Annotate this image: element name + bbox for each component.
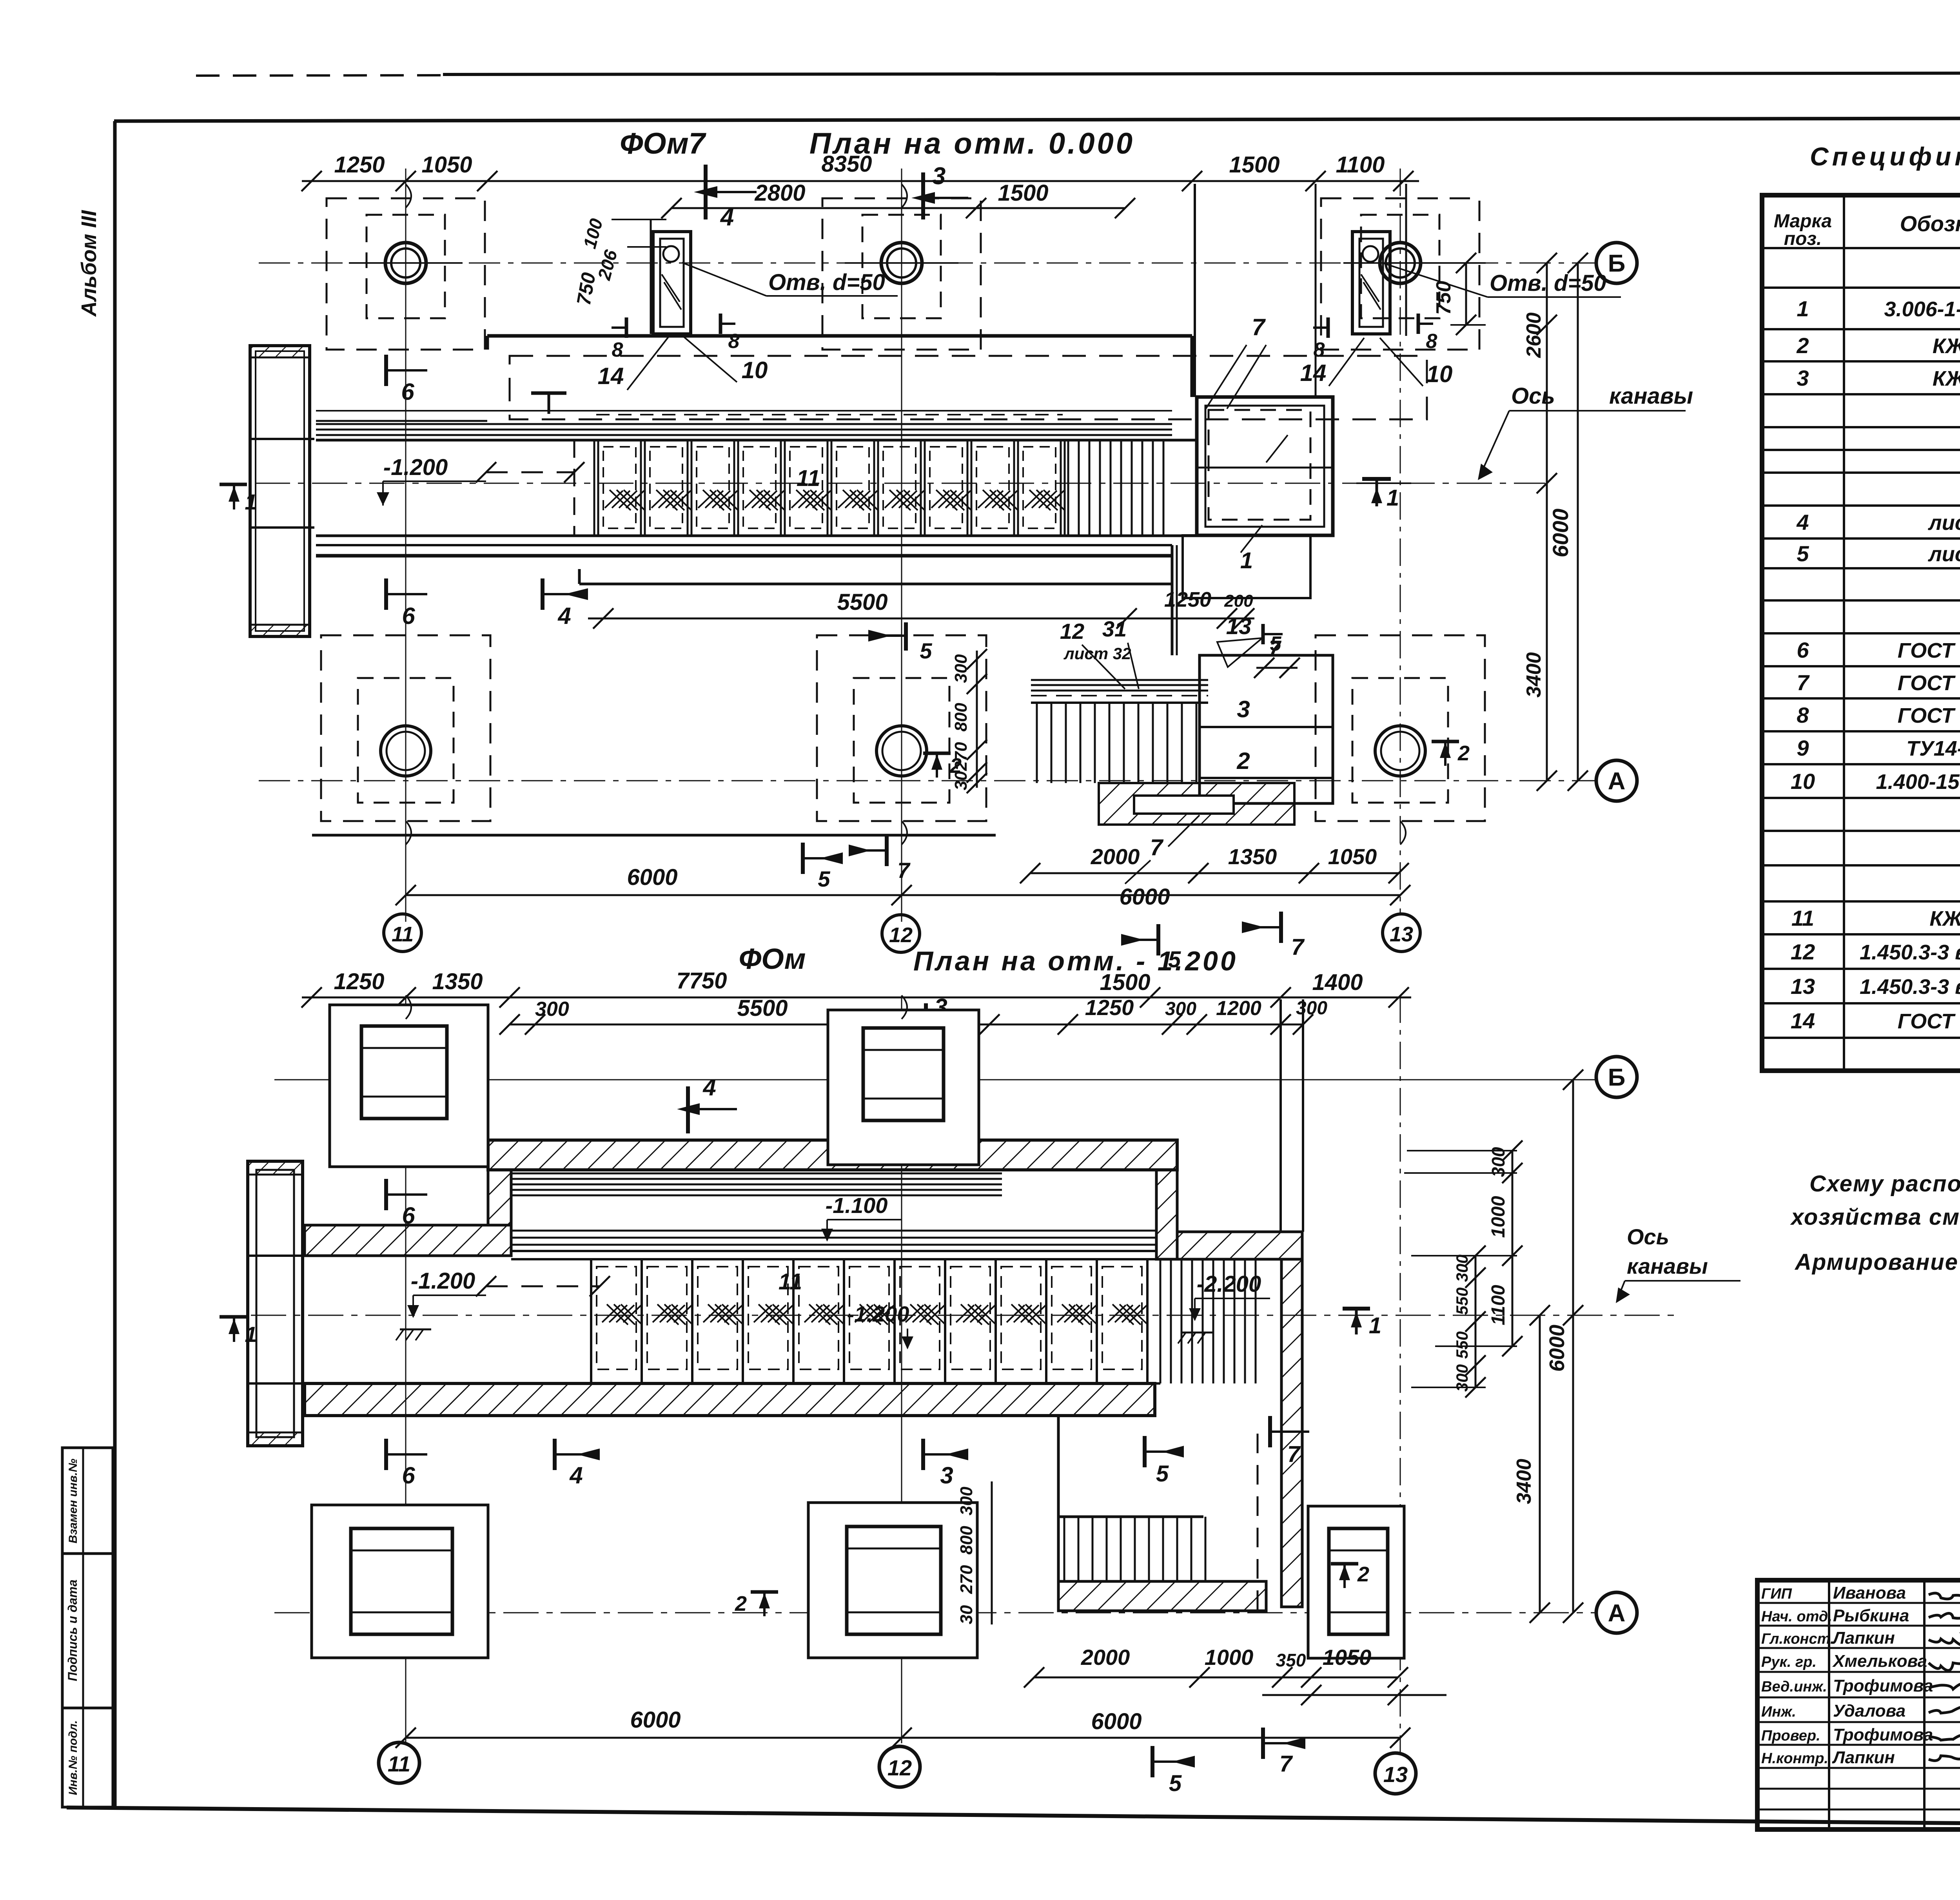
grid line 12 (vertical axis) xyxy=(901,169,902,922)
svg-text:5500: 5500 xyxy=(737,995,788,1021)
svg-text:8: 8 xyxy=(728,330,740,353)
label 11 on covers xyxy=(797,466,820,491)
svg-text:Гл.конст.: Гл.конст. xyxy=(1761,1631,1834,1647)
svg-text:5: 5 xyxy=(920,638,932,663)
section mark 5 (bottom plan mid) xyxy=(1145,1436,1184,1487)
svg-text:13: 13 xyxy=(1383,1762,1408,1787)
pit top wall hatched band xyxy=(488,1140,1177,1170)
svg-text:31: 31 xyxy=(1102,616,1127,641)
note text line 2 xyxy=(1790,1204,1960,1230)
svg-text:1500: 1500 xyxy=(1100,970,1150,995)
svg-text:А: А xyxy=(1608,1600,1626,1627)
svg-text:8350: 8350 xyxy=(821,151,872,177)
section mark 5 (bottom) xyxy=(1152,1746,1195,1796)
svg-text:2800: 2800 xyxy=(754,180,805,206)
svg-text:3.006-1-2/82 в 1-2: 3.006-1-2/82 в 1-2 xyxy=(1884,297,1960,321)
dashed line near right wall xyxy=(1257,1434,1259,1610)
witness lines right (bottom plan) xyxy=(1404,1151,1517,1387)
svg-text:Н.контр.: Н.контр. xyxy=(1761,1750,1828,1767)
svg-text:Армирование ФОм7 смотреть: Армирование ФОм7 смотреть лист 31,32 xyxy=(1794,1249,1960,1275)
section marks 8-8 left column xyxy=(612,314,740,361)
grid line 13 (vertical axis, dash-dot) xyxy=(1400,169,1401,913)
pit upper wall outer edge xyxy=(487,336,1192,397)
axis circle А (bottom plan) xyxy=(1596,1592,1637,1633)
svg-text:ФОм: ФОм xyxy=(739,943,806,975)
column footing grid 11 (bottom plan, upper) xyxy=(330,1005,488,1167)
svg-text:1.450.3-3 в. 2: 1.450.3-3 в. 2 xyxy=(1860,975,1960,999)
section mark 5 (inner bottom) xyxy=(803,843,843,891)
ladder rungs right of covers (top plan) xyxy=(1068,440,1163,536)
svg-text:11: 11 xyxy=(392,923,414,946)
building wall line below pit xyxy=(579,569,1172,584)
ladder rungs (bottom plan band right) xyxy=(1160,1259,1256,1383)
svg-text:7: 7 xyxy=(1252,314,1266,340)
svg-text:300: 300 xyxy=(1453,1364,1471,1392)
title block left grid xyxy=(1757,1580,1960,1829)
chamber mid horizontal line xyxy=(1197,467,1333,469)
svg-text:Альбом III: Альбом III xyxy=(77,210,101,317)
svg-text:А: А xyxy=(1608,768,1626,795)
wavy break pads (bottom plan upper) xyxy=(406,995,907,1019)
note text line 3 xyxy=(1794,1249,1960,1275)
svg-text:6: 6 xyxy=(1797,638,1809,662)
bottom plan title ФОм xyxy=(739,943,806,975)
svg-text:7: 7 xyxy=(1287,1441,1301,1467)
dim 2000/1350/1050 xyxy=(1020,844,1409,883)
svg-text:8: 8 xyxy=(1797,703,1809,727)
svg-text:9: 9 xyxy=(1797,736,1809,760)
svg-text:Б: Б xyxy=(1608,1064,1626,1091)
hatched platform below (pos.7) xyxy=(1099,783,1294,825)
frame bottom edge xyxy=(67,1808,1960,1828)
T2 mark near grid12 pad xyxy=(923,753,962,778)
svg-text:3400: 3400 xyxy=(1523,652,1545,698)
svg-text:2: 2 xyxy=(1236,748,1250,774)
svg-text:Лапкин: Лапкин xyxy=(1832,1628,1895,1648)
wavy break through pad 12 xyxy=(902,184,907,208)
foundation pad at grid 11 / axis Б xyxy=(327,198,485,350)
svg-text:1050: 1050 xyxy=(1328,844,1377,869)
svg-text:300: 300 xyxy=(535,998,569,1021)
svg-text:Спецификация к схеме рас: Спецификация к схеме расположения xyxy=(1810,142,1960,171)
left margin box: Подпись и дата xyxy=(62,1554,113,1708)
svg-text:11: 11 xyxy=(797,466,820,491)
top plan title План на отм. 0.000 xyxy=(809,127,1135,160)
svg-text:550: 550 xyxy=(1453,1331,1471,1359)
svg-text:10: 10 xyxy=(742,357,768,383)
note text line 1 xyxy=(1809,1171,1960,1197)
svg-text:КЖИ-57: КЖИ-57 xyxy=(1933,334,1960,358)
svg-text:Обозначение: Обозначение xyxy=(1900,211,1960,236)
svg-text:1500: 1500 xyxy=(1229,152,1279,178)
label 14 with leader (right) xyxy=(1300,338,1364,386)
svg-text:1: 1 xyxy=(1387,485,1399,511)
svg-text:Инж.: Инж. xyxy=(1761,1704,1796,1720)
svg-text:Хмелькова: Хмелькова xyxy=(1832,1652,1927,1671)
section arrow 3 (top) xyxy=(911,163,968,219)
Ось канавы label (top plan) xyxy=(1478,383,1693,480)
section arrow 4 (top) xyxy=(694,165,757,231)
grid dim 6000 6000 xyxy=(396,865,1410,910)
grid line 11 (bottom plan) xyxy=(405,995,407,1743)
level mark -1.200 in pit xyxy=(377,455,486,506)
column footing grid 12 (bottom plan, upper) xyxy=(828,1010,979,1165)
section mark T1 right xyxy=(1356,479,1411,511)
svg-text:2: 2 xyxy=(735,1592,747,1615)
rotated dims 30/270/800/300 (bottom plan) xyxy=(957,1481,992,1624)
dim 2000/1000/350/1050 xyxy=(1024,1645,1408,1688)
vertical dim 6000 (Б-А) xyxy=(1548,253,1588,791)
svg-text:300: 300 xyxy=(1165,999,1196,1019)
section mark 3 lower (bottom plan) xyxy=(923,1439,968,1488)
column footing grid 11 (bottom plan, lower) xyxy=(312,1505,488,1658)
spec table header text xyxy=(1774,207,1960,249)
svg-text:7: 7 xyxy=(897,858,911,883)
svg-text:канавы: канавы xyxy=(1609,383,1693,409)
lower chamber box with cells 3 and 2 xyxy=(1200,655,1333,803)
svg-text:КЖИ- 91: КЖИ- 91 xyxy=(1929,907,1960,930)
section mark 1 left edge (top plan) xyxy=(220,484,257,514)
svg-text:7: 7 xyxy=(1291,934,1305,960)
pit cells band outline xyxy=(316,440,1198,536)
grid line 11 (vertical axis) xyxy=(405,169,407,922)
svg-text:Рук. гр.: Рук. гр. xyxy=(1761,1654,1817,1670)
pit bottom wall lines xyxy=(316,545,1177,655)
svg-text:6: 6 xyxy=(402,1202,415,1229)
svg-text:6000: 6000 xyxy=(627,865,677,890)
table row 4 xyxy=(1796,510,1960,535)
spec table title line 1 xyxy=(1810,142,1960,171)
pit axis centerline xyxy=(255,483,1545,484)
section mark 6 lower (bottom plan) xyxy=(386,1439,427,1488)
svg-text:6000: 6000 xyxy=(630,1707,681,1733)
svg-text:1: 1 xyxy=(1369,1313,1381,1338)
wavy breaks in bottom pads xyxy=(406,821,1406,845)
short dim line below xyxy=(1262,1685,1446,1705)
title block outer xyxy=(1757,1580,1960,1829)
svg-text:200: 200 xyxy=(1224,591,1253,611)
section mark 7 (inner bottom) xyxy=(849,835,911,883)
pit bottom wall hatched band xyxy=(305,1383,1155,1416)
svg-text:Вед.инж.: Вед.инж. xyxy=(1761,1679,1827,1695)
outer vertical dim 300/1000/1100 xyxy=(1488,1140,1523,1356)
svg-text:Трофимова: Трофимова xyxy=(1833,1725,1933,1744)
svg-text:6000: 6000 xyxy=(1545,1325,1569,1372)
section mark 5 (inner bottom) xyxy=(803,843,843,891)
section mark 7 (bottom plan mid) xyxy=(1270,1416,1309,1467)
canal axis centerline (bottom plan) xyxy=(251,1315,1682,1316)
svg-text:ГИП: ГИП xyxy=(1761,1586,1792,1602)
T2 mark near grid12 (bottom plan) xyxy=(735,1592,778,1616)
section mark T1 (bottom plan) xyxy=(1343,1309,1381,1338)
svg-text:300: 300 xyxy=(1453,1255,1471,1282)
table row 10 xyxy=(1791,769,1960,794)
svg-text:5: 5 xyxy=(1797,541,1809,566)
axis circle Б (top plan) xyxy=(1596,243,1637,283)
svg-text:1.400-15 в.1 550-06: 1.400-15 в.1 550-06 xyxy=(1876,770,1960,794)
svg-text:2600: 2600 xyxy=(1523,312,1545,358)
axis А line (bottom plan) xyxy=(274,1612,1595,1614)
T symbol in plate zone xyxy=(531,393,566,414)
svg-text:Удалова: Удалова xyxy=(1833,1701,1906,1721)
svg-text:1: 1 xyxy=(245,490,257,514)
svg-text:3400: 3400 xyxy=(1513,1459,1535,1504)
inner vertical dim 300/550/550/300 xyxy=(1453,1246,1486,1398)
lower stair rungs xyxy=(1031,703,1208,783)
foundation pad grid 11 / axis А xyxy=(321,635,490,821)
right vertical wall xyxy=(1281,1259,1302,1607)
svg-text:хозяйства смотри листы 18;: хозяйства смотри листы 18; 19. xyxy=(1790,1204,1960,1230)
svg-text:1000: 1000 xyxy=(1205,1645,1254,1670)
section mark 7 (inner bottom) xyxy=(849,835,911,883)
svg-text:ГОСТ 8509-72*: ГОСТ 8509-72* xyxy=(1898,671,1960,695)
svg-text:Отв. d=50: Отв. d=50 xyxy=(1490,270,1606,296)
frame left edge xyxy=(113,121,117,1808)
table row 8 xyxy=(1797,703,1960,727)
svg-text:ФОм7: ФОм7 xyxy=(620,127,707,160)
svg-text:5: 5 xyxy=(1156,1461,1169,1487)
svg-text:поз.: поз. xyxy=(1784,228,1822,249)
svg-text:30: 30 xyxy=(957,1605,976,1624)
svg-text:14: 14 xyxy=(1791,1008,1815,1033)
section mark 5 (bottom) xyxy=(1121,924,1181,972)
svg-text:5: 5 xyxy=(1270,633,1282,655)
svg-text:11: 11 xyxy=(388,1751,410,1776)
table row 9 xyxy=(1797,736,1960,760)
label 13 with leader (right) xyxy=(1217,614,1262,667)
left end cap (bottom plan) xyxy=(248,1161,305,1446)
bottom plan dim line 300/5500/1250/300/1200/300 xyxy=(499,995,1327,1035)
svg-text:1400: 1400 xyxy=(1312,970,1363,995)
svg-text:1100: 1100 xyxy=(1488,1285,1509,1325)
upper plate zone dashed outline with 14 labels xyxy=(510,356,1427,419)
svg-text:550: 550 xyxy=(1453,1287,1471,1315)
Ось канавы label (bottom plan) xyxy=(1616,1224,1740,1303)
svg-text:Инв.№ подл.: Инв.№ подл. xyxy=(67,1720,80,1795)
level mark -1.200 (bottom plan mid) xyxy=(847,1302,913,1349)
svg-text:Ось: Ось xyxy=(1511,383,1555,409)
svg-text:ГОСТ 8568-77*: ГОСТ 8568-77* xyxy=(1898,1010,1960,1033)
svg-text:14: 14 xyxy=(1300,360,1327,386)
svg-text:лист 31: лист 31 xyxy=(1927,511,1960,535)
svg-text:1350: 1350 xyxy=(432,969,483,994)
svg-text:7: 7 xyxy=(1279,1751,1293,1777)
svg-text:4: 4 xyxy=(702,1074,716,1100)
table row 13 xyxy=(1791,971,1960,1004)
section mark 7 (bottom) xyxy=(1242,912,1305,960)
level mark -2.200 (bottom plan right) xyxy=(1178,1271,1270,1343)
axis Б line (bottom plan) xyxy=(274,1079,1595,1081)
level mark -1.100 xyxy=(821,1193,902,1242)
svg-text:11: 11 xyxy=(1791,906,1814,930)
svg-text:канавы: канавы xyxy=(1627,1254,1708,1278)
grid line 13 (bottom plan, dash-dot) xyxy=(1400,995,1401,1752)
wall jog right vertical xyxy=(1156,1170,1177,1259)
label 7 top with leader xyxy=(1206,314,1266,409)
wall band left horizontal xyxy=(305,1225,511,1256)
svg-text:5500: 5500 xyxy=(837,589,887,615)
svg-text:12: 12 xyxy=(887,1755,912,1780)
foundation pad at grid 12 / axis Б xyxy=(822,198,981,350)
table row 7 xyxy=(1797,670,1960,695)
svg-text:-1.200: -1.200 xyxy=(847,1302,909,1326)
svg-text:5: 5 xyxy=(818,867,830,891)
svg-text:КЖИ-57: КЖИ-57 xyxy=(1933,367,1960,390)
svg-text:13: 13 xyxy=(1791,974,1815,999)
wavy break through pad 11 xyxy=(406,184,411,208)
axis circle Б (bottom plan) xyxy=(1596,1057,1637,1097)
svg-text:10: 10 xyxy=(1426,361,1453,387)
svg-text:4: 4 xyxy=(569,1462,583,1488)
svg-text:Отв. d=50: Отв. d=50 xyxy=(768,270,885,295)
svg-text:300: 300 xyxy=(1296,998,1327,1019)
svg-text:6: 6 xyxy=(402,603,415,629)
svg-text:6000: 6000 xyxy=(1119,884,1170,910)
svg-text:750: 750 xyxy=(1432,281,1455,315)
signatures column xyxy=(1929,1593,1960,1761)
grid circle 13 (top plan) xyxy=(1383,914,1420,952)
dashed divider in pit floor xyxy=(573,440,575,536)
table row 5 xyxy=(1797,541,1960,566)
label 14 with leader (left) xyxy=(598,337,668,390)
svg-text:Подпись и дата: Подпись и дата xyxy=(65,1579,80,1681)
foundation pad grid 13 / axis А xyxy=(1316,635,1485,821)
table row 1 xyxy=(1797,296,1960,321)
svg-text:Нач. отд.: Нач. отд. xyxy=(1761,1608,1832,1625)
svg-text:6000: 6000 xyxy=(1548,509,1573,558)
rails band top of pit xyxy=(316,411,1172,435)
pit cover cells row (pos.11 covers) xyxy=(594,440,1065,536)
section arrow 3 (bottom plan top) xyxy=(915,994,970,1050)
column footing grid 13 (bottom plan, lower) xyxy=(1308,1506,1404,1658)
svg-text:10: 10 xyxy=(1791,769,1815,794)
svg-text:1250: 1250 xyxy=(334,969,384,994)
wall band right horizontal xyxy=(1177,1232,1302,1259)
svg-text:1250: 1250 xyxy=(1164,588,1211,611)
svg-text:1050: 1050 xyxy=(421,152,472,178)
guard rail lines (pos.12) xyxy=(1031,680,1208,696)
dashed witness with ticks (bottom plan) xyxy=(476,1276,610,1296)
svg-text:1250: 1250 xyxy=(334,152,385,178)
svg-text:5: 5 xyxy=(1169,1771,1182,1796)
axis circle А (top plan) xyxy=(1596,760,1637,801)
embedded column with hole (right, pos.10) xyxy=(1352,232,1390,334)
svg-text:12: 12 xyxy=(1060,619,1084,644)
svg-text:2: 2 xyxy=(1357,1563,1369,1586)
wall strip verticals top right (bottom plan) xyxy=(1281,999,1303,1232)
table row 11 xyxy=(1791,906,1960,930)
svg-text:Трофимова: Трофимова xyxy=(1833,1676,1933,1695)
svg-text:Схему расположения элементов: Схему расположения элементов подземного xyxy=(1809,1171,1960,1197)
small dims 100/206/750 (left column) xyxy=(572,216,666,334)
svg-text:8: 8 xyxy=(1426,330,1437,353)
verticals above right chamber xyxy=(1195,184,1406,397)
rotated label: Альбом III xyxy=(77,210,101,317)
svg-text:Б: Б xyxy=(1608,250,1626,277)
svg-text:-1.200: -1.200 xyxy=(383,455,448,480)
sheet top scan edge (dashed) xyxy=(196,73,1960,78)
cross-hatch marks on covers xyxy=(605,490,1065,510)
svg-text:Иванова: Иванова xyxy=(1833,1583,1906,1603)
section marks 8-8 right column xyxy=(1313,314,1437,361)
grid circle 12 (bottom plan) xyxy=(879,1746,920,1787)
table row 12 xyxy=(1791,936,1960,969)
label 7 small with dim (right) xyxy=(1254,636,1300,678)
table row 14 xyxy=(1791,1008,1960,1033)
section mark 5 small xyxy=(1263,624,1283,655)
stair corridor rungs (bottom plan lower) xyxy=(1058,1517,1205,1581)
left margin box: Взамен инв. № xyxy=(62,1448,113,1554)
svg-text:7: 7 xyxy=(1797,670,1810,695)
grid circle 11 (bottom plan) xyxy=(379,1742,419,1783)
pit cells band (bottom plan) xyxy=(511,1259,1160,1383)
table row 2 xyxy=(1796,333,1960,358)
svg-text:-1.200: -1.200 xyxy=(411,1268,475,1294)
embedded column with hole (left, pos.10) xyxy=(653,232,691,334)
wall jog left vertical xyxy=(488,1170,511,1225)
svg-text:6: 6 xyxy=(401,379,414,405)
section mark 5 (upper, near pad12) xyxy=(868,622,932,663)
grid dim 6000/6000 (bottom plan) xyxy=(396,1707,1410,1748)
svg-text:1.450.3-3 в. 2: 1.450.3-3 в. 2 xyxy=(1860,941,1960,964)
left end cap of pit xyxy=(250,346,314,636)
svg-text:План на отм. - 1.200: План на отм. - 1.200 xyxy=(913,946,1238,976)
svg-text:800: 800 xyxy=(951,703,971,732)
label Отв. d=50 (left) xyxy=(682,263,898,296)
section mark 6 (lower) xyxy=(386,578,427,629)
section mark 1 left edge (bottom plan) xyxy=(220,1317,257,1347)
T2 mark grid13 (bottom plan) xyxy=(1331,1563,1369,1588)
svg-text:13: 13 xyxy=(1390,923,1413,946)
axis А line (horizontal) xyxy=(259,780,1595,781)
grid line 12 (bottom plan) xyxy=(901,995,902,1743)
svg-text:300: 300 xyxy=(1488,1147,1508,1177)
section arrow 4 (bottom plan) xyxy=(677,1074,737,1133)
svg-text:1050: 1050 xyxy=(1323,1645,1372,1670)
svg-text:1500: 1500 xyxy=(998,180,1048,206)
svg-text:2000: 2000 xyxy=(1091,844,1140,869)
svg-text:1200: 1200 xyxy=(1216,997,1261,1020)
svg-text:1350: 1350 xyxy=(1228,844,1277,869)
vertical dim 750/2600/3400 line xyxy=(1432,253,1557,791)
svg-text:12: 12 xyxy=(889,923,913,947)
axis Б line (horizontal) xyxy=(259,263,1595,264)
svg-text:1100: 1100 xyxy=(1336,152,1385,178)
column footing grid 12 (bottom plan, lower) xyxy=(808,1503,977,1658)
svg-text:350: 350 xyxy=(1276,1650,1306,1670)
left margin box: Инв. № подл. xyxy=(62,1708,113,1807)
foundation pad grid 12 / axis А xyxy=(817,635,986,821)
svg-text:6: 6 xyxy=(402,1462,415,1488)
section mark 6 (upper) xyxy=(386,355,427,405)
svg-text:12: 12 xyxy=(1791,939,1815,964)
section mark 7 (bottom) xyxy=(1263,1728,1305,1777)
svg-text:270: 270 xyxy=(957,1565,976,1594)
svg-text:8: 8 xyxy=(612,339,623,361)
svg-text:4: 4 xyxy=(557,603,571,629)
stair corridor hatched band xyxy=(1058,1581,1266,1611)
svg-text:лист 35: лист 35 xyxy=(1927,542,1960,566)
svg-text:14: 14 xyxy=(598,363,624,389)
svg-text:300: 300 xyxy=(957,1487,976,1516)
foundation pad at grid 13 / axis Б xyxy=(1321,198,1479,350)
corridor left edge xyxy=(1058,1383,1155,1611)
svg-text:6000: 6000 xyxy=(1091,1709,1142,1734)
svg-text:ГОСТ 8509-72*: ГОСТ 8509-72* xyxy=(1898,704,1960,727)
svg-text:800: 800 xyxy=(957,1526,976,1555)
table row 3 xyxy=(1797,366,1960,390)
frame top edge xyxy=(114,118,1960,121)
